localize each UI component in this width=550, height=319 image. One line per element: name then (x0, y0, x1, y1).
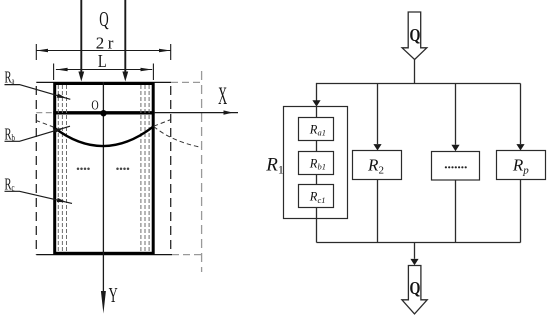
Y axis centerline (102, 82, 104, 292)
inner dashed lines left cluster (58, 85, 66, 252)
heat output hollow arrow Q (402, 266, 427, 314)
resistor Rc1 (299, 185, 334, 208)
ground surface dashed extension (171, 81, 202, 83)
dashed extension upper right (154, 120, 171, 127)
bottom bus wire (317, 242, 521, 244)
label Rc with leader (5, 175, 73, 204)
svg-text:Q: Q (99, 7, 109, 31)
bottom dashed extension (172, 254, 203, 256)
resistor R1 outer box (284, 107, 348, 219)
pile body rectangle (55, 84, 154, 254)
svg-text:O: O (91, 97, 98, 113)
dimension L (54, 64, 154, 81)
far-field dashed boundary (201, 71, 203, 272)
dashed curve extension right (154, 127, 202, 148)
ellipsis dots left (77, 168, 90, 171)
branch wire to R2 (373, 84, 381, 151)
origin node dot (100, 110, 106, 116)
X axis arrow (155, 110, 238, 114)
wire Rc1 to bottom bus (316, 208, 318, 243)
ellipsis dots right (116, 168, 129, 171)
resistor R2 (353, 151, 402, 180)
ground surface line (36, 81, 171, 83)
label Rb with leader (5, 125, 71, 144)
svg-text:Y: Y (109, 284, 118, 307)
wire ellipsis box to bottom bus (455, 180, 457, 243)
heat flux arrow Q1 (left) (78, 0, 84, 82)
X axis dashed left segment (36, 112, 53, 114)
wire from Q arrow to top bus (414, 60, 416, 84)
heat input hollow arrow Q (402, 12, 427, 60)
top bus wire (317, 83, 521, 85)
svg-text:X: X (218, 83, 227, 111)
inner dashed lines right cluster (141, 85, 149, 252)
svg-text:Q: Q (409, 279, 420, 298)
wire Rb1 to Rc1 (316, 175, 318, 185)
dimension 2r (36, 44, 170, 60)
wire from bottom bus to output arrow (410, 243, 418, 266)
branch wire to ellipsis box (451, 84, 459, 152)
wire Ra1 to Rb1 (316, 141, 318, 152)
svg-text:Q: Q (409, 27, 420, 46)
bottom boundary line (36, 254, 172, 256)
wire Rp to bottom bus (520, 180, 522, 243)
label Ra with leader (5, 68, 71, 100)
branch wire to R1 (312, 83, 320, 107)
borehole wall dashed line left (35, 86, 37, 255)
resistor Ra1 (299, 118, 334, 141)
resistor Rp (497, 151, 546, 180)
dashed extension left (37, 121, 55, 128)
resistor Rb1 (299, 152, 334, 175)
wire R2 to bottom bus (377, 180, 379, 243)
borehole wall dashed line right (170, 86, 172, 255)
X axis thick segment (53, 111, 154, 114)
temperature profile curve (53, 126, 153, 146)
svg-text:L: L (98, 50, 107, 71)
branch wire to Rp (516, 84, 524, 151)
ellipsis resistor box (432, 152, 480, 181)
heat flux arrow Q2 (right) (122, 0, 128, 82)
Y axis arrow (101, 291, 106, 314)
wire into Ra1 (316, 107, 318, 118)
